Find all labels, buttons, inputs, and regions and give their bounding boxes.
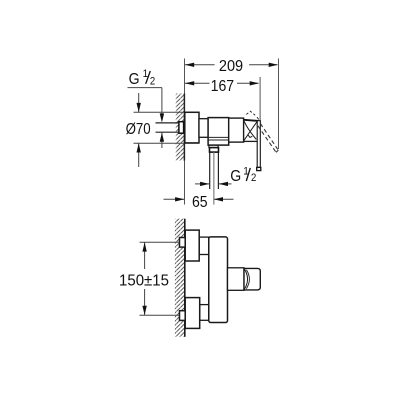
svg-text:65: 65: [192, 193, 208, 211]
svg-text:G: G: [129, 70, 140, 88]
svg-text:2: 2: [251, 173, 257, 185]
svg-text:2: 2: [150, 76, 156, 88]
svg-text:167: 167: [211, 77, 234, 95]
svg-text:150±15: 150±15: [119, 272, 169, 289]
svg-text:G: G: [230, 167, 241, 185]
svg-text:209: 209: [219, 57, 243, 75]
svg-text:Ø70: Ø70: [126, 121, 151, 138]
